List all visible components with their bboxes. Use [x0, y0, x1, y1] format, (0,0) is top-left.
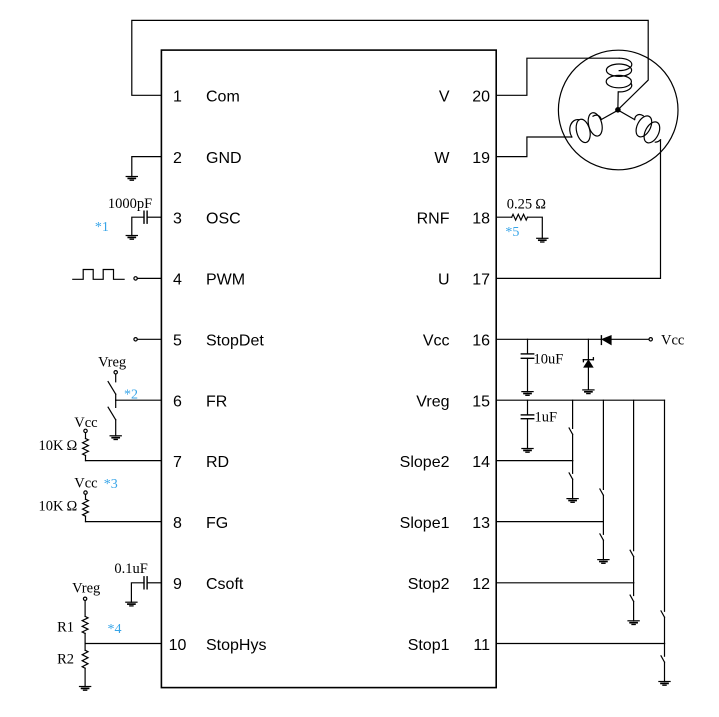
switch lower lever (Stop1 pin11): [661, 656, 665, 662]
svg-text:12: 12: [472, 576, 490, 593]
svg-text:4: 4: [173, 272, 182, 289]
wire pin6 FR: [116, 399, 162, 401]
wire pin18 RNF to resistor: [496, 216, 512, 218]
switch S1 lower lever (FR): [108, 407, 116, 420]
svg-text:16: 16: [472, 333, 490, 350]
wire pin3 OSC to capacitor: [147, 216, 161, 218]
terminal Vcc RD: [84, 429, 87, 432]
node motor common (center dot): [616, 108, 620, 112]
wire capacitor to ground: [132, 217, 144, 235]
wire pin16 to zener: [587, 339, 589, 359]
svg-text:20: 20: [472, 89, 490, 106]
svg-text:RD: RD: [206, 454, 229, 471]
wire resistor to ground: [528, 217, 543, 238]
svg-text:Slope2: Slope2: [400, 454, 450, 471]
wire switch to Slope2 pin14 node: [572, 434, 574, 460]
wire Vcc to resistor: [85, 494, 87, 499]
wire R2 to ground: [84, 668, 86, 686]
wire Stop1 pin11 node down: [664, 644, 666, 657]
wire pin2 GND to ground: [132, 157, 162, 177]
inductor coil V (top): [606, 58, 632, 107]
wire resistor to pin8: [85, 516, 87, 521]
pin 9 number and name: [173, 576, 244, 593]
svg-text:11: 11: [473, 637, 490, 654]
svg-text:W: W: [434, 150, 450, 167]
svg-text:Vreg: Vreg: [416, 394, 449, 411]
terminal Vreg FR: [114, 371, 117, 374]
svg-text:Vreg: Vreg: [98, 354, 126, 370]
wire lower switch to ground: [602, 540, 604, 559]
pin 2 number and name: [173, 150, 242, 167]
motor M1 outline circle: [558, 50, 678, 170]
svg-text:FR: FR: [206, 394, 227, 411]
wire pin19 W to motor left coil: [496, 137, 572, 157]
resistor 0.25Ω: [512, 214, 528, 220]
pin 18 number and name: [417, 211, 490, 228]
resistor R1: [82, 616, 88, 633]
svg-text:StopHys: StopHys: [206, 637, 266, 654]
wire pin14 Slope2: [496, 460, 572, 462]
pin 14 number and name: [400, 454, 490, 471]
wire Vcc to resistor: [85, 433, 87, 439]
wire pin15 Vreg bus: [496, 399, 664, 401]
wire switch to Slope1 pin13 node: [602, 495, 604, 521]
svg-text:Csoft: Csoft: [206, 576, 244, 593]
svg-text:V: V: [439, 89, 450, 106]
wire pin12 Stop2: [496, 582, 633, 584]
wire Vreg bus drop to Slope2 pin14: [572, 400, 574, 428]
svg-text:13: 13: [472, 515, 490, 532]
svg-text:U: U: [438, 272, 450, 289]
terminal Vcc supply: [649, 338, 652, 341]
svg-text:GND: GND: [206, 150, 242, 167]
pin 5 number and name: [173, 333, 264, 350]
wire Com net: pin1 stub, up, top bus, down to motor common: [132, 20, 648, 109]
switch upper lever (Stop2 pin12): [630, 550, 634, 556]
pin 10 number and name: [169, 637, 267, 654]
svg-text:Stop1: Stop1: [408, 637, 450, 654]
wire 1uF to ground: [527, 419, 529, 449]
inductor coil W (left): [570, 111, 616, 144]
wire Vreg bus drop to Stop2 pin12: [633, 400, 635, 550]
wire lower switch to ground: [115, 420, 117, 436]
ground RNF: [537, 238, 548, 242]
wire Stop2 pin12 node down: [633, 583, 635, 596]
resistor 10K (FG pull-up): [83, 499, 89, 516]
svg-text:*1: *1: [95, 220, 109, 235]
svg-text:17: 17: [472, 272, 490, 289]
svg-text:1uF: 1uF: [535, 410, 558, 426]
wire pin20 V to motor top coil: [496, 58, 619, 95]
svg-text:R2: R2: [57, 651, 74, 667]
terminal pin4 PWM input: [134, 277, 137, 280]
wire lower switch to ground: [664, 662, 666, 681]
wire Slope1 pin13 node down: [602, 522, 604, 535]
svg-text:R1: R1: [57, 619, 74, 635]
wire switch to pin6 node: [115, 394, 117, 400]
diode D1 (Vcc input) cathode bar: [600, 336, 602, 345]
capacitor C 1uF plates: [521, 415, 533, 419]
wire diode to Vcc terminal: [611, 338, 649, 340]
diode D1 triangle: [602, 336, 611, 344]
pin 17 number and name: [438, 272, 490, 289]
pin 11 number and name: [408, 637, 490, 654]
capacitor C 1000pF plates: [144, 211, 147, 223]
ground FR switch: [110, 436, 121, 440]
svg-text:10K Ω: 10K Ω: [38, 438, 77, 454]
wire pin9 Csoft to capacitor: [147, 582, 161, 584]
switch S1 upper lever (FR): [108, 382, 116, 395]
wire pin5 StopDet: [137, 338, 161, 340]
pin 16 number and name: [423, 333, 490, 350]
zener diode ZD1 triangle: [584, 360, 592, 367]
switch lower lever (Slope2 pin14): [569, 473, 573, 479]
svg-text:0.25 Ω: 0.25 Ω: [507, 196, 546, 212]
pin 13 number and name: [400, 515, 490, 532]
wire Slope2 pin14 node down: [572, 461, 574, 474]
pin 4 number and name: [173, 272, 245, 289]
svg-text:14: 14: [472, 454, 490, 471]
svg-text:10uF: 10uF: [534, 352, 564, 368]
svg-text:19: 19: [472, 150, 490, 167]
wire pin10 node to R2: [84, 644, 86, 651]
svg-text:Com: Com: [206, 89, 240, 106]
svg-text:*4: *4: [108, 622, 122, 637]
capacitor C 10uF plates: [521, 354, 533, 358]
wire pin16 to 10uF capacitor: [527, 339, 529, 354]
pin 15 number and name: [416, 394, 490, 411]
wire Vreg to R1: [84, 601, 86, 617]
svg-text:Vcc: Vcc: [423, 333, 450, 350]
svg-text:10: 10: [169, 637, 187, 654]
wire pin15 to 1uF capacitor: [527, 400, 529, 415]
capacitor C 0.1uF plates: [144, 577, 147, 589]
svg-text:*3: *3: [104, 477, 118, 492]
ground Stop2 pin12: [628, 621, 639, 625]
ground Slope1 pin13: [598, 560, 609, 564]
pin 1 number and name: [173, 89, 240, 106]
svg-text:OSC: OSC: [206, 211, 241, 228]
pin 19 number and name: [434, 150, 490, 167]
ground Stop1 pin11: [659, 682, 670, 686]
wire pin17 U to motor right coil: [496, 140, 660, 279]
pin 3 number and name: [173, 211, 241, 228]
wire pin8 FG: [86, 521, 162, 523]
svg-text:7: 7: [173, 454, 182, 471]
ground 0.1uF: [126, 602, 137, 606]
svg-text:StopDet: StopDet: [206, 333, 264, 350]
ground zener: [583, 390, 594, 394]
svg-text:RNF: RNF: [417, 211, 450, 228]
wire pin4 PWM: [137, 277, 161, 279]
zener diode ZD1 cathode bar: [583, 358, 593, 362]
svg-text:*2: *2: [124, 387, 138, 402]
svg-text:Vcc: Vcc: [74, 415, 97, 431]
terminal Vcc FG: [84, 491, 87, 494]
ground pin2: [126, 177, 137, 181]
wire switch to Stop1 pin11 node: [664, 617, 666, 643]
svg-text:10K Ω: 10K Ω: [38, 499, 77, 515]
svg-text:9: 9: [173, 576, 182, 593]
svg-text:Vcc: Vcc: [661, 333, 684, 349]
svg-text:5: 5: [173, 333, 182, 350]
switch lower lever (Stop2 pin12): [630, 595, 634, 601]
wire zener to ground: [587, 367, 589, 390]
svg-text:*5: *5: [505, 225, 519, 240]
pin 8 number and name: [173, 515, 228, 532]
switch upper lever (Slope2 pin14): [569, 428, 573, 434]
wire pin13 Slope1: [496, 521, 603, 523]
ground 10uF: [522, 392, 533, 396]
svg-text:6: 6: [173, 394, 182, 411]
terminal Vreg StopHys: [83, 597, 86, 600]
wire switch to Stop2 pin12 node: [633, 557, 635, 583]
ground 1000pF: [126, 236, 137, 240]
svg-text:3: 3: [173, 211, 182, 228]
svg-text:Vreg: Vreg: [72, 581, 100, 597]
ground 1uF: [522, 449, 533, 453]
pin 7 number and name: [173, 454, 229, 471]
inductor coil U (right): [620, 111, 663, 145]
svg-text:PWM: PWM: [206, 272, 245, 289]
resistor R2: [82, 650, 88, 668]
pin 6 number and name: [173, 394, 227, 411]
svg-text:FG: FG: [206, 515, 228, 532]
wire pin16 Vcc line: [496, 338, 601, 340]
IC U1 body (20-pin motor driver): [161, 50, 496, 688]
terminal pin5 StopDet input: [134, 338, 137, 341]
wire lower switch to ground: [572, 479, 574, 498]
svg-text:Slope1: Slope1: [400, 515, 450, 532]
wire Vreg bus drop to Slope1 pin13: [602, 400, 604, 489]
wire capacitor to ground: [131, 583, 144, 602]
svg-text:18: 18: [472, 211, 490, 228]
wire lower switch to ground: [633, 601, 635, 620]
wire pin10 StopHys: [85, 643, 161, 645]
ground Slope2 pin14: [567, 499, 578, 503]
svg-text:8: 8: [173, 515, 182, 532]
wire R1 to pin10 node: [84, 633, 86, 643]
wire pin6 node down to lower switch: [115, 400, 117, 407]
svg-text:Stop2: Stop2: [408, 576, 450, 593]
svg-text:2: 2: [173, 150, 182, 167]
switch lower lever (Slope1 pin13): [600, 534, 604, 540]
wire Vreg terminal to switch: [115, 374, 117, 382]
wire pin11 Stop1: [496, 643, 664, 645]
pwm input square waveform: [73, 270, 124, 280]
resistor 10K (RD pull-up): [83, 439, 89, 456]
svg-text:15: 15: [472, 394, 490, 411]
pin 12 number and name: [408, 576, 490, 593]
wire resistor to pin7: [85, 456, 87, 461]
switch upper lever (Stop1 pin11): [661, 611, 665, 617]
svg-text:Vcc: Vcc: [74, 476, 97, 492]
wire Vreg bus drop to Stop1 pin11: [664, 400, 666, 611]
wire pin7 RD: [86, 460, 162, 462]
svg-text:1: 1: [173, 89, 182, 106]
wire 10uF to ground: [527, 358, 529, 391]
switch upper lever (Slope1 pin13): [600, 489, 604, 495]
svg-text:0.1uF: 0.1uF: [114, 561, 147, 577]
svg-text:1000pF: 1000pF: [108, 196, 152, 212]
pin 20 number and name: [439, 89, 490, 106]
ground R2: [80, 687, 91, 691]
